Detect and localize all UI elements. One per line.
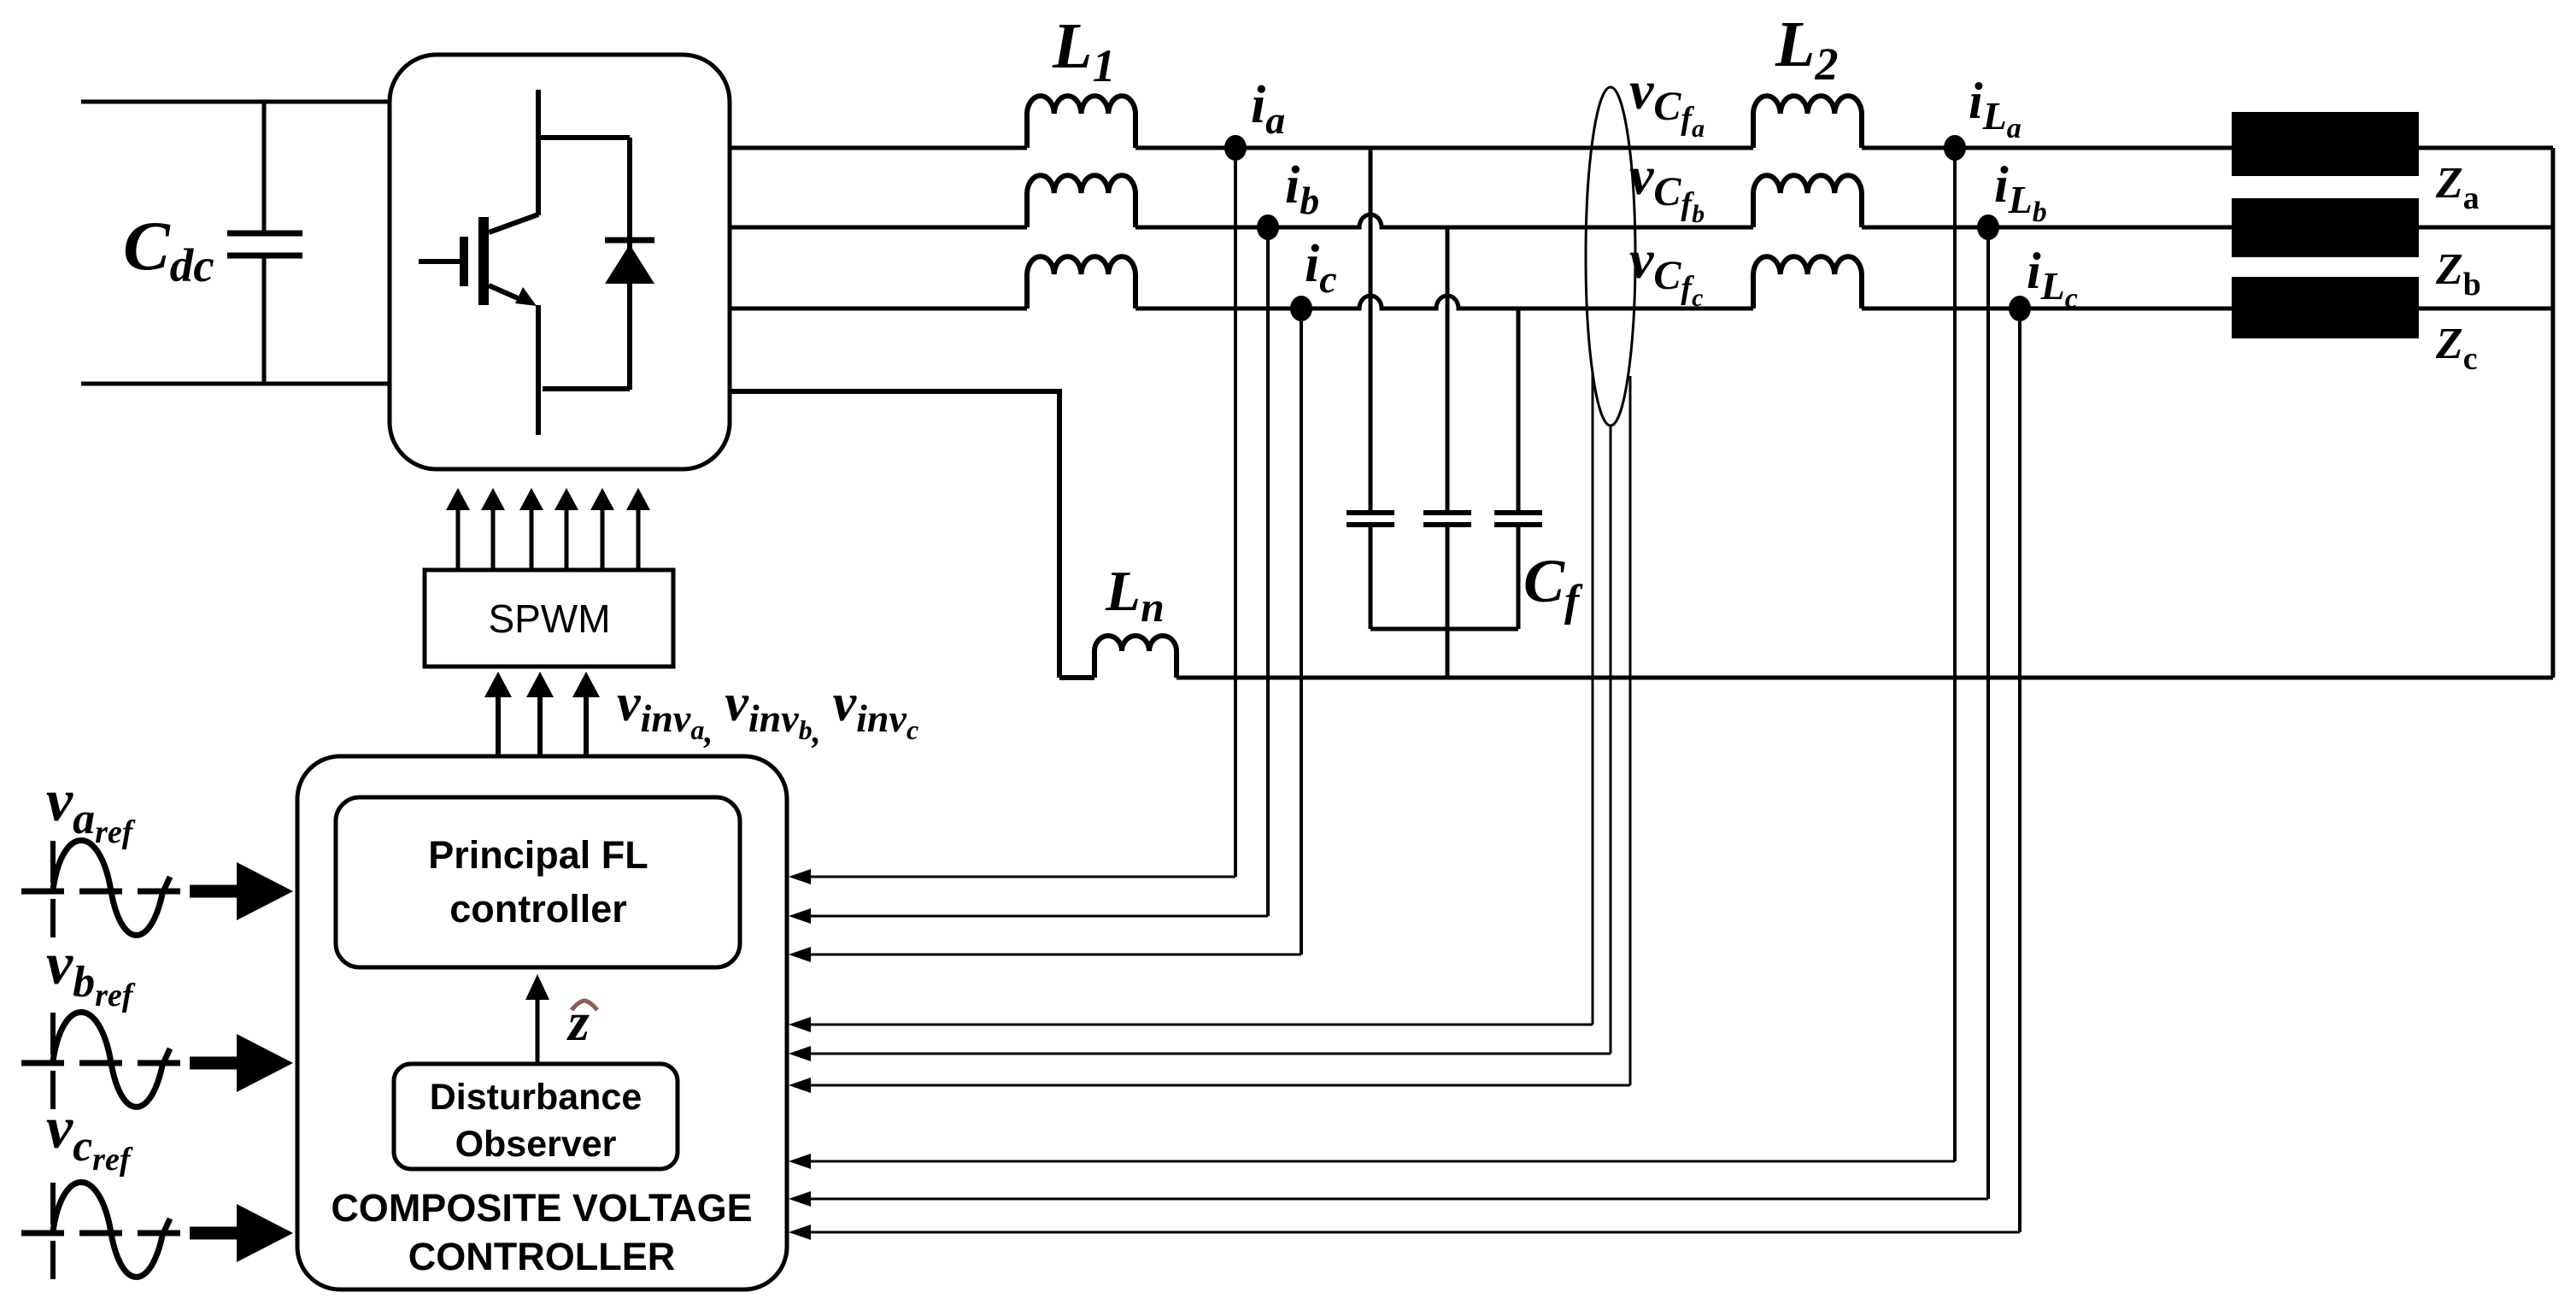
svg-text:COMPOSITE VOLTAGE: COMPOSITE VOLTAGE	[331, 1186, 752, 1230]
arrow z-hat observer to controller	[536, 996, 540, 1064]
node iLa	[1944, 135, 1966, 161]
wire phase C L2 to load	[1862, 307, 2232, 311]
wire phase C L1 to L2 with hops	[1135, 296, 1753, 308]
load Zc	[2232, 277, 2419, 338]
node ia	[1224, 135, 1247, 161]
load Zb	[2232, 198, 2419, 257]
feedback ib horizontal	[807, 915, 1268, 918]
feedback vCfb horizontal	[807, 1053, 1611, 1055]
arrow ref a	[190, 885, 238, 898]
SPWM block	[425, 570, 673, 667]
principal FL controller box	[336, 797, 740, 967]
wire vCfc feedback vertical	[1629, 376, 1632, 1085]
svg-text:CONTROLLER: CONTROLLER	[408, 1235, 675, 1278]
SPWM gate arrows	[446, 488, 650, 570]
feedback vCfc horizontal	[807, 1084, 1630, 1087]
wire Cf common bus	[1370, 627, 1518, 631]
node iLc	[2009, 296, 2031, 321]
wire neutral to Ln	[1059, 675, 1094, 680]
feedback iLb horizontal	[807, 1198, 1988, 1201]
inductor L1 phase a	[1027, 96, 1135, 148]
wire neutral from inverter	[730, 391, 1059, 678]
label z-hat	[572, 1001, 597, 1010]
wire vCfa feedback vertical	[1592, 373, 1594, 1025]
svg-text:SPWM: SPWM	[488, 596, 610, 641]
node ic	[1290, 296, 1312, 321]
wire neutral bus	[1177, 676, 2553, 680]
wire ic feedback vertical	[1300, 308, 1303, 955]
sine reference c	[21, 1182, 183, 1279]
transistor Q1 (IGBT)	[419, 90, 630, 435]
capacitor Cf phase a	[1347, 148, 1394, 629]
capacitor Cf phase c	[1494, 308, 1542, 629]
svg-text:Disturbance: Disturbance	[430, 1077, 643, 1118]
inductor L1 phase b	[1027, 175, 1135, 227]
wire iLc feedback vertical	[2018, 308, 2021, 1232]
wire phase A L1 to L2	[1135, 146, 1753, 150]
node ib	[1257, 214, 1279, 240]
feedback iLc horizontal	[807, 1231, 2020, 1234]
wire phase C inverter to L1	[730, 307, 1027, 311]
wire load A return	[2419, 146, 2553, 150]
wire load B return	[2419, 226, 2553, 230]
inductor L1 phase c	[1027, 256, 1135, 308]
wire phase B L1 to L2 with hop	[1135, 214, 1753, 227]
wire load return vertical	[2551, 148, 2555, 678]
capacitor Cf phase b	[1423, 227, 1471, 629]
sine reference a	[21, 840, 183, 937]
wire ib feedback vertical	[1266, 227, 1270, 916]
svg-text:z: z	[566, 991, 590, 1052]
arrow ref c	[190, 1227, 238, 1240]
svg-text:Principal FL: Principal FL	[428, 833, 648, 877]
wire phase B L2 to load	[1862, 226, 2232, 230]
disturbance observer box	[394, 1064, 678, 1169]
feedback ia horizontal	[807, 876, 1235, 878]
wire iLa feedback vertical	[1953, 148, 1957, 1161]
wire ia feedback vertical	[1234, 148, 1237, 877]
sine reference b	[21, 1012, 183, 1109]
svg-text:controller: controller	[449, 887, 627, 931]
arrow ref b	[190, 1057, 238, 1070]
feedback iLa horizontal	[807, 1160, 1955, 1163]
wire phase A inverter to L1	[730, 146, 1027, 150]
inductor Ln	[1094, 636, 1177, 678]
wire phase B inverter to L1	[730, 226, 1027, 230]
diode D1	[543, 138, 654, 390]
inductor L2 phase c	[1753, 256, 1862, 308]
svg-text:Observer: Observer	[455, 1124, 617, 1165]
feedback ic horizontal	[807, 954, 1301, 956]
wire vCfb feedback vertical	[1610, 425, 1612, 1054]
wire dc top rail	[81, 100, 390, 104]
composite voltage controller box	[297, 756, 787, 1289]
measurement ellipse vCf	[1586, 87, 1635, 426]
inductor L2 phase a	[1753, 96, 1862, 148]
node iLb	[1977, 214, 1999, 240]
inductor L2 phase b	[1753, 175, 1862, 227]
wire phase A L2 to load	[1862, 146, 2232, 150]
wire dc bottom rail	[81, 382, 390, 386]
wire load C return	[2419, 307, 2553, 311]
load Za	[2232, 112, 2419, 176]
capacitor Cdc	[227, 102, 302, 384]
feedback vCfa horizontal	[807, 1024, 1593, 1026]
wire Cf bus to neutral	[1446, 629, 1450, 678]
controller to SPWM arrows	[484, 672, 600, 755]
inverter block U1	[390, 55, 730, 469]
wire iLb feedback vertical	[1986, 227, 1990, 1199]
